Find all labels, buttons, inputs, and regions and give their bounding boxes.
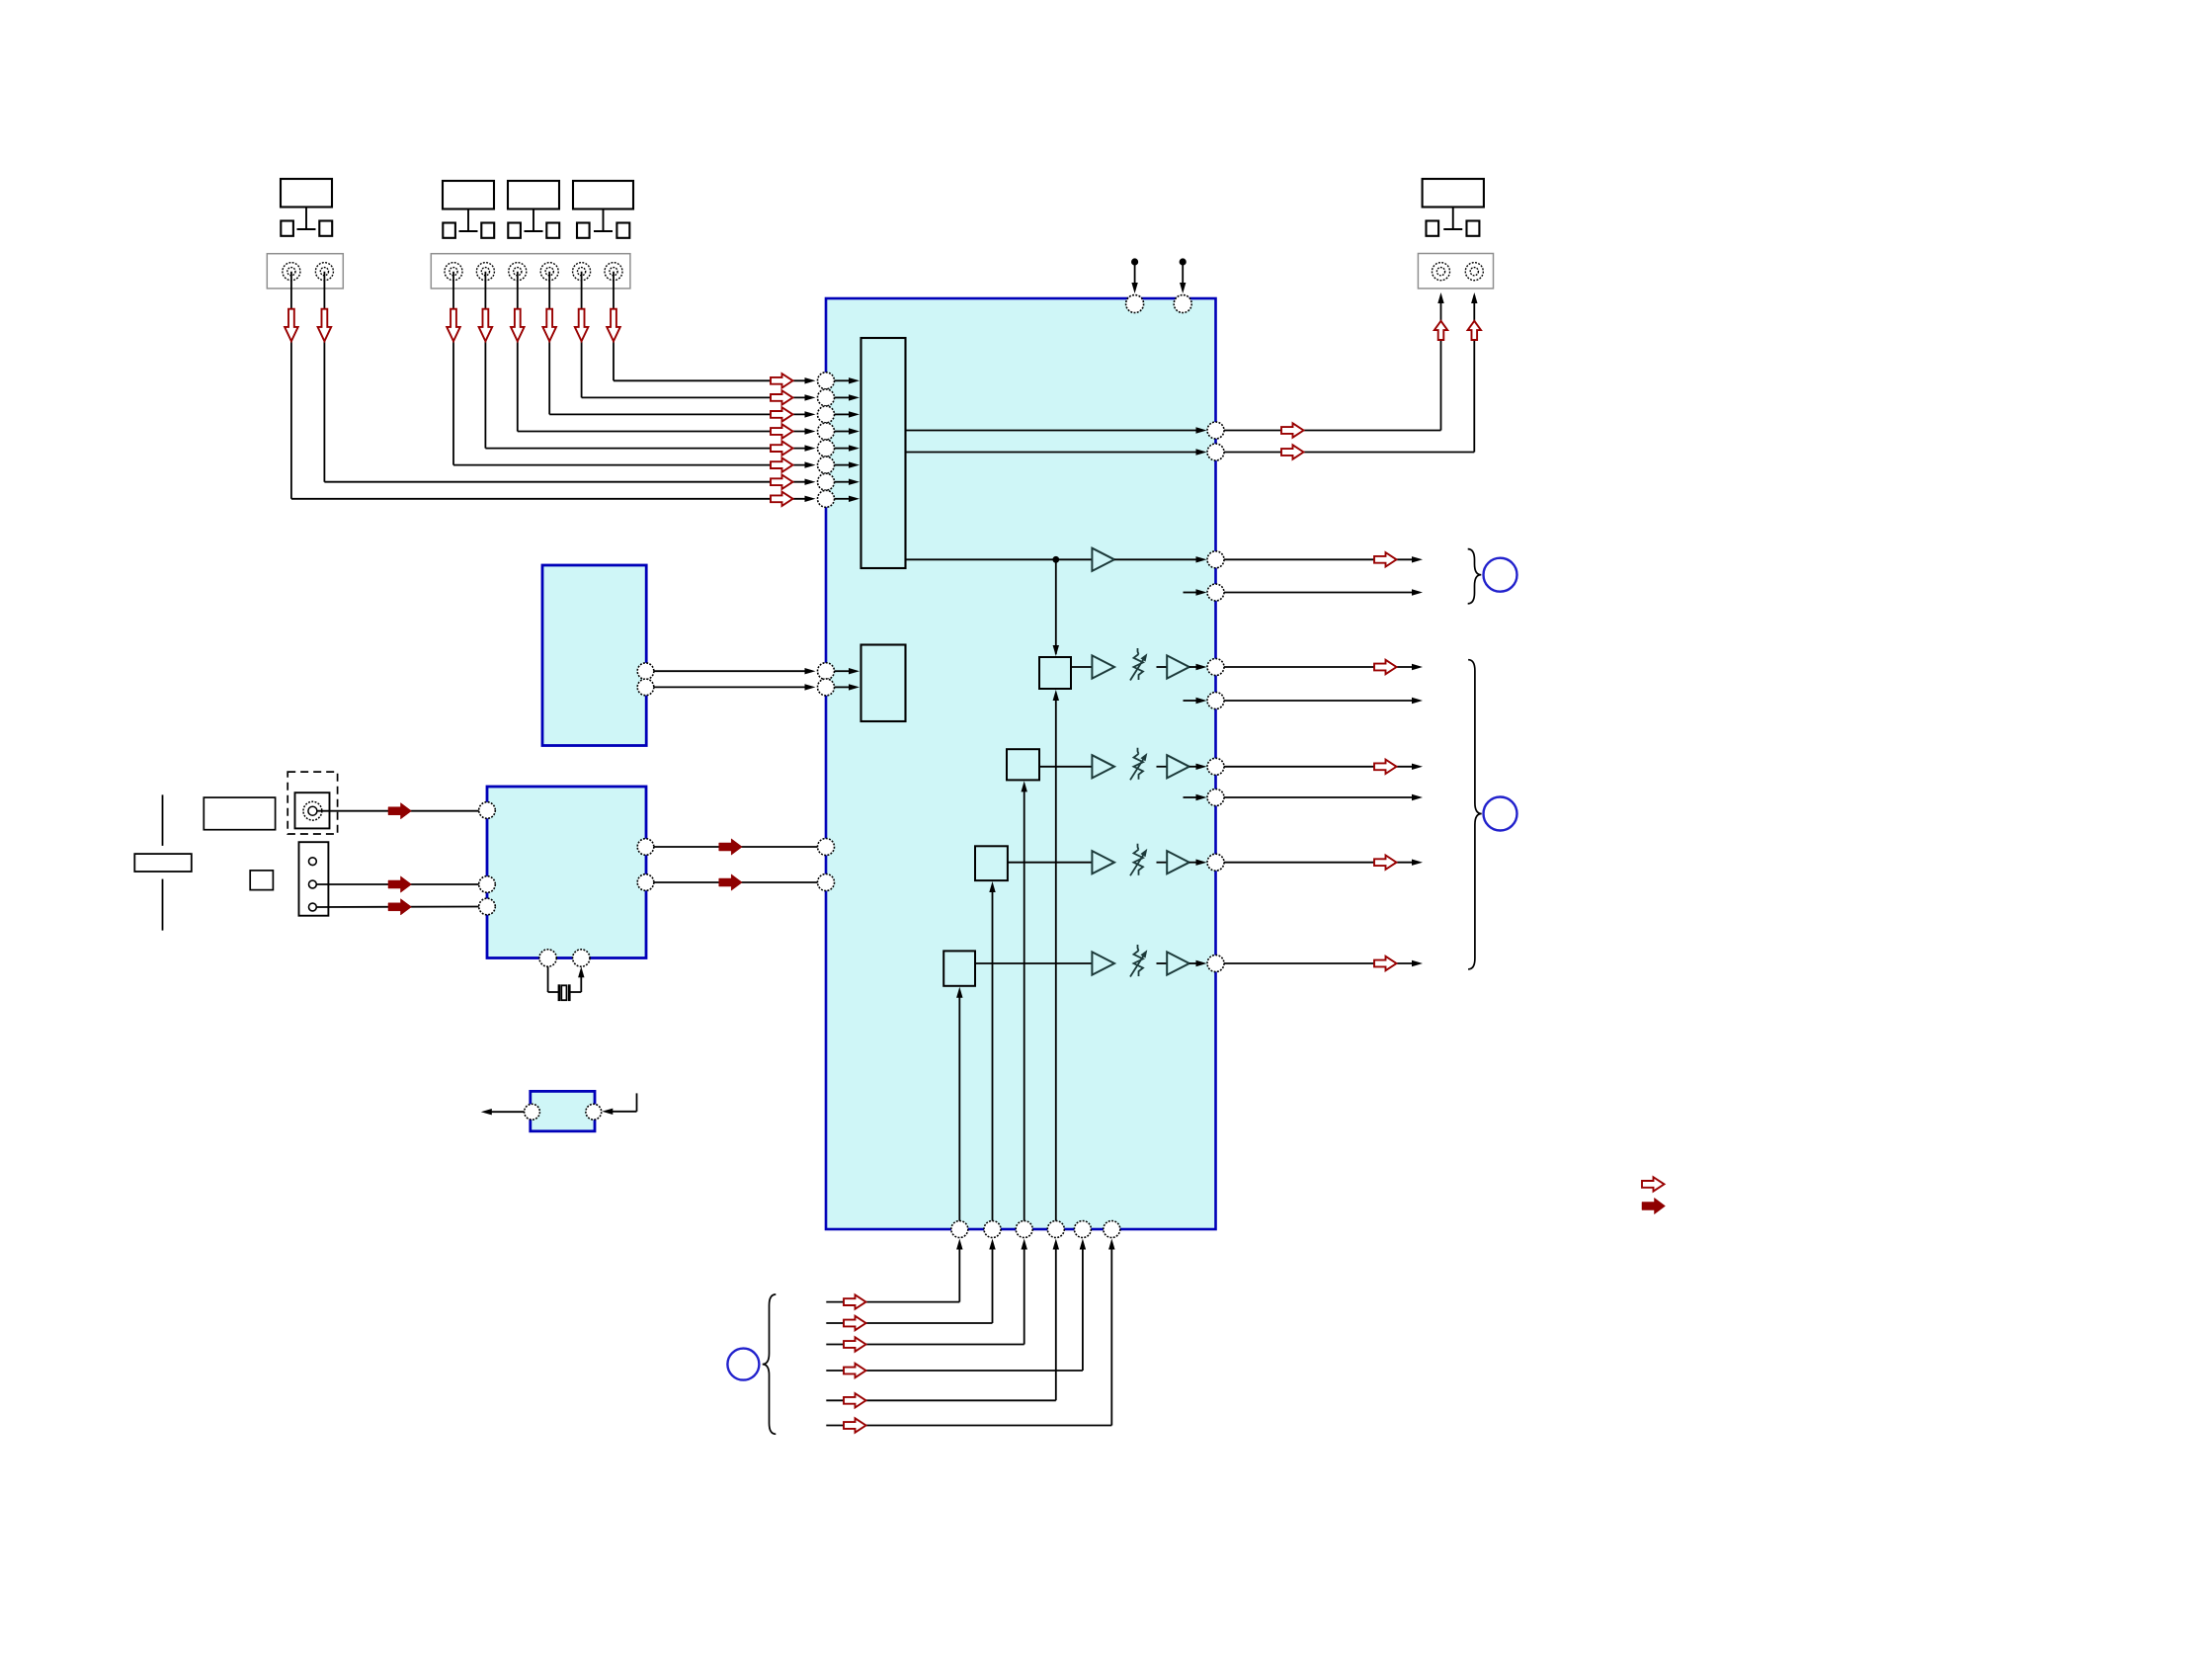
stub into pair port row 2 [1184, 794, 1207, 800]
stub into pair port row 1 [1184, 698, 1207, 704]
label box (power) [204, 797, 275, 830]
tuner output ports [637, 663, 654, 696]
brace headphone pair [1468, 549, 1482, 604]
speaker symbol (blue circle) [1484, 797, 1517, 831]
IC preout port 1b [1207, 584, 1224, 601]
preout pair 1 external lines [1224, 556, 1423, 596]
external line row 3 [1224, 860, 1423, 866]
black arrowheads into IC input ports [805, 377, 816, 502]
DC jack [295, 792, 330, 828]
tuner interface box [861, 645, 906, 722]
volume/switch box B2 [1007, 749, 1039, 780]
connector wire 2 [316, 906, 478, 909]
arrows input ports to selector [835, 377, 860, 502]
IC tuner-in ports [818, 663, 835, 696]
device D2 (source) [443, 181, 494, 238]
tuner block [542, 565, 646, 746]
red open arrows on IC input lines [771, 374, 793, 506]
IC preout port 1a [1207, 551, 1224, 568]
IC pair port row 2 [1207, 790, 1224, 806]
MCU left ports [479, 802, 496, 915]
IC control-in ports [818, 839, 835, 891]
red open arrows on remote wires [844, 1294, 866, 1432]
IC power-out port row 1 [1207, 659, 1224, 676]
wires: source jacks to IC inputs [291, 272, 806, 499]
red up arrows to speaker jacks [1434, 321, 1481, 340]
wire bottom pin 2 to vol box 3 [989, 881, 995, 1221]
red filled arrows connector wires [388, 876, 412, 915]
IC bottom control pins [951, 1221, 1120, 1238]
MCU right ports [637, 839, 654, 891]
remote control wires to IC bottom pins [826, 1239, 1114, 1426]
amp chain row 4 [975, 945, 1207, 977]
IC power-out port row 2 [1207, 758, 1224, 775]
red open arrow row 1 [1374, 660, 1397, 674]
MCU to IC control wire 2 [654, 881, 818, 883]
digital out wire left [481, 1109, 525, 1115]
volume/switch box B1 [1039, 657, 1071, 689]
crystal X1 circuit [548, 966, 585, 1001]
antenna symbol [134, 794, 192, 930]
jack panel J3 (speaker) [1418, 254, 1493, 289]
arrows into tuner interface box [835, 668, 860, 691]
red down arrows on input wires [285, 309, 620, 342]
IC pair port row 1 [1207, 693, 1224, 709]
device D1 (2-jack source) [281, 179, 332, 236]
legend open arrow (signal path) [1642, 1177, 1665, 1191]
red filled arrows on control wires [719, 839, 743, 890]
wire junction to vol box 1 [1053, 559, 1059, 656]
remote commander symbol (blue circle) [727, 1349, 759, 1380]
digital block ports [525, 1104, 602, 1120]
wire bottom pin 1 to vol box 4 [956, 987, 962, 1221]
MCU bottom ports [539, 950, 590, 966]
external line row 2 [1224, 764, 1423, 770]
amp chain row 2 [1039, 748, 1207, 781]
red open arrow row 2 [1374, 760, 1397, 774]
power feed pin P1 on IC top [1126, 258, 1144, 312]
IC power-out port row 4 [1207, 956, 1224, 972]
device D4 (source) [573, 181, 633, 238]
brace speaker group [1468, 660, 1482, 969]
volume/switch box B3 [975, 846, 1008, 880]
wire bottom pin 4 to vol box 1 [1053, 690, 1059, 1221]
jack panel J1 [267, 254, 343, 289]
DC-in dashed enclosure [287, 772, 337, 834]
external pair line row 1 [1224, 698, 1423, 704]
wire bottom pin 3 to vol box 2 [1022, 781, 1027, 1221]
amp chain row 3 [1008, 844, 1207, 876]
amp chain row 1 [1071, 648, 1207, 681]
red open arrow preout 1 [1374, 552, 1397, 566]
buffer amp A1 [1092, 548, 1114, 571]
volume/switch box B4 [943, 951, 975, 985]
IC rec-out port B [1207, 444, 1224, 460]
device D5 (speaker pair) [1423, 179, 1484, 236]
headphone symbol (blue circle) [1484, 558, 1517, 592]
red filled arrow DC wire [388, 803, 412, 819]
main DSP/amplifier IC block U1 [826, 298, 1216, 1229]
IC rec-out port A [1207, 422, 1224, 439]
jack panel J2 (6 jacks) [431, 254, 630, 289]
wire rec-out A to speaker jack L [1224, 292, 1444, 431]
brace remote group [763, 1294, 777, 1434]
external pair line row 2 [1224, 794, 1423, 800]
selector to buffer line + junction [906, 556, 1093, 563]
red open arrow row 3 [1374, 856, 1397, 870]
DC wire to MCU [317, 810, 479, 812]
legend filled arrow (power path) [1642, 1198, 1666, 1213]
small label box [250, 871, 273, 890]
power feed pin P2 on IC top [1174, 258, 1191, 312]
device D3 (source) [508, 181, 559, 238]
3-pin connector [299, 842, 329, 916]
digital in wire [602, 1093, 636, 1115]
external line row 1 [1224, 664, 1423, 670]
input selector block [861, 338, 906, 568]
connector wire 1 [316, 883, 478, 885]
system control MCU block [487, 787, 646, 958]
stub into port 1b [1184, 589, 1207, 595]
line amp A1 to port [1114, 556, 1207, 562]
red open arrow row 4 [1374, 957, 1397, 970]
external line row 4 [1224, 960, 1423, 966]
tuner to IC wires [654, 668, 816, 691]
MCU to IC control wire 1 [654, 846, 818, 848]
red open arrows on rec-out wires [1281, 423, 1304, 458]
IC input ports (8 circles) [818, 373, 835, 508]
IC power-out port row 3 [1207, 854, 1224, 871]
wire rec-out B to speaker jack R [1224, 292, 1478, 453]
digital I/O block [531, 1091, 595, 1130]
selector to rec-out lines [906, 427, 1207, 455]
